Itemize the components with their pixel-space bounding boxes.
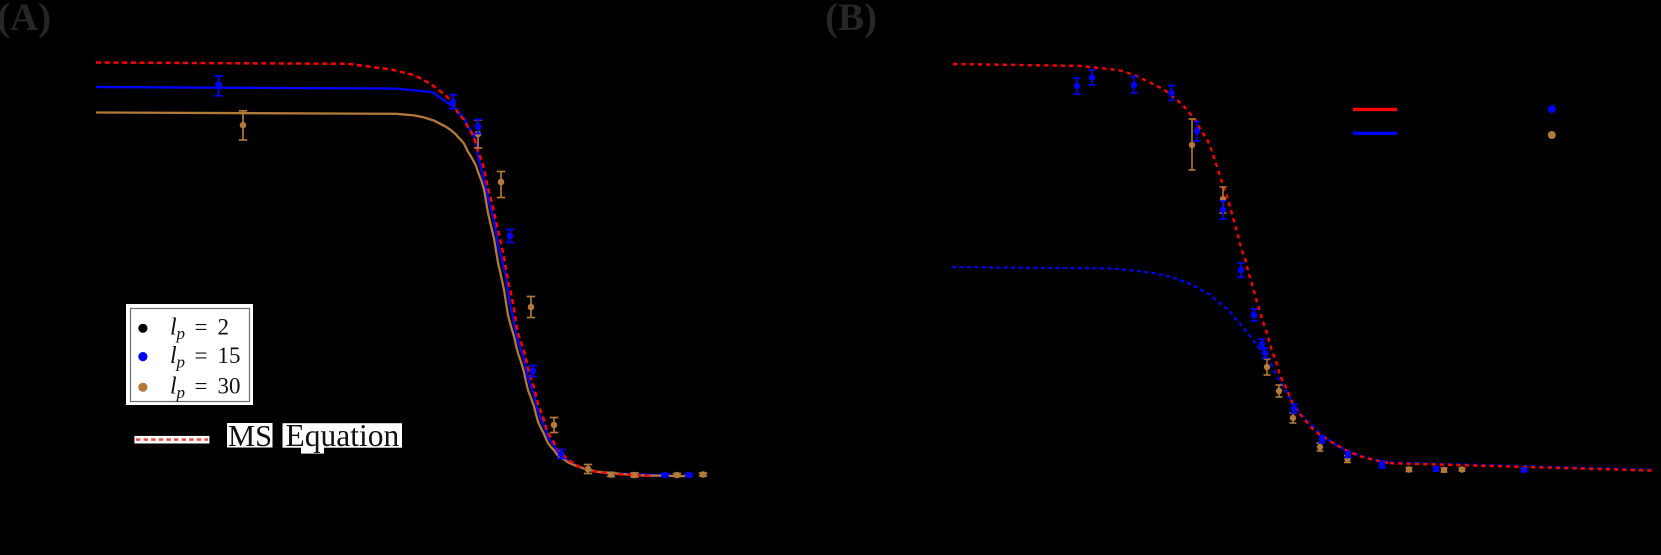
data point (1409,469.5) #b1793a	[1406, 466, 1413, 472]
curve red dashed tail, panel B	[1390, 463, 1655, 470]
legend A box	[126, 304, 253, 405]
data point (1197,131) #0000ff	[1194, 122, 1201, 142]
curve blue dashed, panel B	[952, 267, 1390, 462]
data point (1436,469) #0000ff	[1433, 466, 1440, 472]
data point (1293,418) #b1793a	[1290, 413, 1297, 423]
data point (703,474.5) #b1793a	[699, 471, 707, 478]
data point (1524,470) #0000ff	[1521, 467, 1528, 473]
svg-text:MS: MS	[228, 419, 272, 453]
curve blue dashed tail (under red), panel B	[1390, 462, 1655, 469]
legend B brown marker	[1548, 131, 1556, 139]
data point (1382,465) #0000ff	[1379, 462, 1386, 468]
svg-text:p: p	[176, 383, 186, 402]
data point (1279,391) #b1793a	[1276, 385, 1283, 397]
data point (1134,85) #0000ff	[1131, 77, 1138, 94]
svg-text:15: 15	[218, 343, 241, 368]
data point (634.5,475) #b1793a	[630, 472, 638, 479]
data point (1322,439.5) #0000ff	[1319, 436, 1326, 443]
curve brown solid lp=30, panel A	[96, 113, 690, 477]
legend B red line sample	[1353, 108, 1397, 111]
legend MS Equation sample strip	[134, 436, 209, 444]
data point (1241,270) #0000ff	[1238, 263, 1245, 277]
data point (554,425) #b1793a	[550, 418, 558, 433]
curve blue solid lp=15, panel A	[96, 87, 692, 476]
svg-text:=: =	[195, 315, 208, 340]
svg-text:=: =	[195, 374, 208, 399]
curve MS-equation red dashed, panel A	[96, 63, 652, 477]
data point (1320,447) #b1793a	[1317, 443, 1324, 451]
data point (1267,367) #b1793a	[1264, 359, 1271, 375]
data point (1348,454.5) #0000ff	[1345, 451, 1352, 457]
data point (478,134) #b1793a	[474, 120, 482, 148]
data point (1192,145) #b1793a	[1189, 119, 1196, 170]
svg-text:p: p	[176, 324, 186, 343]
data point (1077,86) #0000ff	[1074, 78, 1081, 94]
legend MS Equation text	[227, 418, 402, 454]
svg-text:(A): (A)	[0, 0, 51, 39]
data point (218.6,84.6) #0000ff	[214, 76, 222, 96]
data point (611,474.5) #b1793a	[607, 471, 615, 478]
legend A marker lp=15	[138, 352, 147, 361]
data point (1347.5,459) #b1793a	[1344, 456, 1351, 463]
svg-text:2: 2	[218, 315, 230, 340]
data point (1262,344) #0000ff	[1259, 339, 1266, 349]
svg-text:p: p	[176, 353, 186, 372]
legend B blue line sample	[1353, 132, 1397, 135]
svg-text:30: 30	[218, 374, 241, 399]
legend B blue marker	[1548, 105, 1556, 113]
curve MS-equation red dashed, panel B	[953, 64, 1390, 463]
data point (677,475) #b1793a	[673, 472, 681, 479]
data point (1223,199) #b1793a	[1220, 187, 1227, 213]
svg-text:=: =	[195, 343, 208, 368]
data point (453,102) #0000ff	[449, 95, 457, 109]
data point (501,182) #b1793a	[497, 172, 505, 198]
data point (478,126.5) #0000ff	[474, 120, 482, 134]
data point (1265,353) #0000ff	[1262, 348, 1269, 358]
data point (588,469) #b1793a	[584, 465, 592, 474]
data point (1462,469.5) #b1793a	[1459, 466, 1466, 472]
data point (689,475) #0000ff	[685, 472, 693, 479]
data point (1444,470) #b1793a	[1441, 467, 1448, 473]
data point (1223,210) #0000ff	[1220, 201, 1227, 219]
data point (665,475) #0000ff	[661, 472, 669, 479]
svg-text:Equation: Equation	[286, 418, 400, 453]
data point (243,125.2) #b1793a	[239, 111, 247, 140]
data point (1092,77.5) #0000ff	[1089, 70, 1096, 85]
data point (510,236) #0000ff	[506, 230, 514, 243]
data point (1171.5,93) #0000ff	[1168, 86, 1175, 101]
legend A marker lp=2	[138, 324, 147, 333]
data point (533,371) #0000ff	[529, 366, 537, 377]
data point (531,307) #b1793a	[527, 297, 535, 318]
data point (1254,315) #0000ff	[1251, 309, 1258, 321]
data point (561,454) #0000ff	[557, 450, 565, 459]
legend A marker lp=30	[138, 383, 147, 392]
data point (1294,408.5) #0000ff	[1291, 404, 1298, 413]
svg-text:(B): (B)	[825, 0, 877, 39]
